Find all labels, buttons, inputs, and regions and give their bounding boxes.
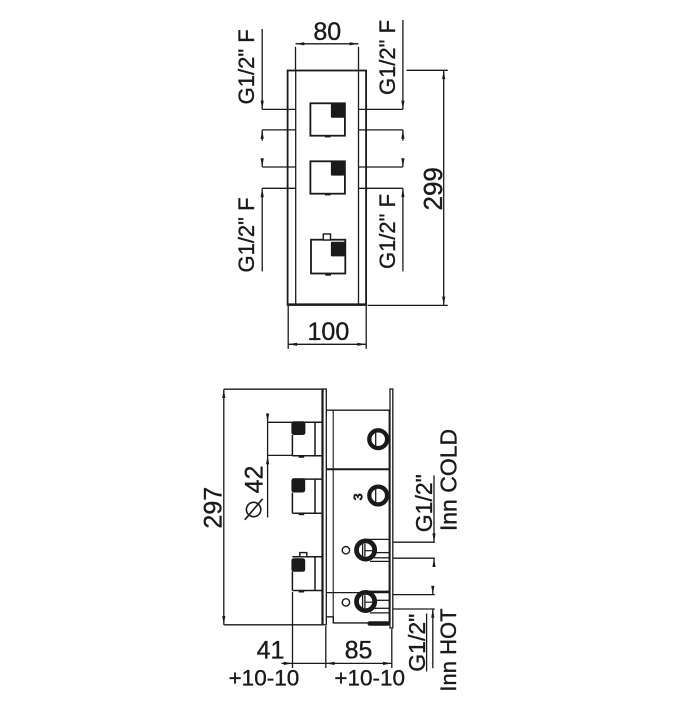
connection stub lines right pair 1 [359,109,403,129]
label G1/2 F bottom-left with leader [234,158,264,272]
svg-text:85: 85 [345,637,373,665]
port circle 1 [369,430,387,448]
svg-text:297: 297 [199,487,227,529]
connection stub lines left pair 1 [262,109,296,129]
label G1/2 F top-left with leader [234,29,264,141]
side view wall plate [323,389,327,625]
side view valve body outline [326,410,390,626]
dimension 41 and 85 [229,592,405,691]
dimension 100 [288,306,366,349]
svg-text:Inn HOT: Inn HOT [436,608,461,691]
small screw circle upper [342,547,349,554]
label G1/2 Inn COLD [393,429,462,567]
svg-text:G1/2" F: G1/2" F [375,20,400,95]
svg-text:+10-10: +10-10 [229,666,300,691]
front view plate inner edge right [358,71,360,305]
dimension dia 42 [240,414,292,520]
port circle 2 [369,487,387,505]
connection stub lines right pair 2 [359,167,403,188]
side view handle 1 [291,421,322,458]
svg-text:G1/2" F: G1/2" F [234,197,259,272]
svg-text:299: 299 [418,167,448,210]
front view plate inner edge left [295,71,297,305]
svg-text:42: 42 [240,466,268,494]
connection stub lines left pair 2 [262,167,296,188]
dimension 80 [296,18,359,70]
svg-text:+10-10: +10-10 [334,666,405,691]
svg-text:G1/2" F: G1/2" F [234,29,259,104]
cold inlet circle 3 with pipe [357,539,391,561]
svg-text:41: 41 [257,637,285,665]
side view handle 2 [291,478,322,515]
label G1/2 Inn HOT [393,586,461,692]
label G1/2 F top-right with leader [375,20,404,141]
hot inlet circle 4 with pipe [357,591,391,613]
svg-text:100: 100 [308,318,350,346]
front view plate outer rectangle [287,71,366,305]
side view mounting plate right [390,389,393,628]
svg-text:G1/2": G1/2" [404,614,430,672]
small screw circle lower [342,599,349,606]
dimension 297 [199,389,322,625]
svg-text:Inn COLD: Inn COLD [436,429,462,531]
svg-text:3: 3 [351,493,366,500]
handle square 2 front [310,161,345,196]
handle square 3 front (thermostat) [311,234,345,276]
svg-text:80: 80 [313,18,341,46]
side view handle 3 (thermostat) [291,553,322,593]
dimension 299 [368,70,448,305]
label G1/2 F bottom-right with leader [375,158,404,271]
svg-text:G1/2": G1/2" [411,474,437,532]
svg-text:G1/2" F: G1/2" F [375,194,400,269]
handle square 1 front [310,103,345,138]
